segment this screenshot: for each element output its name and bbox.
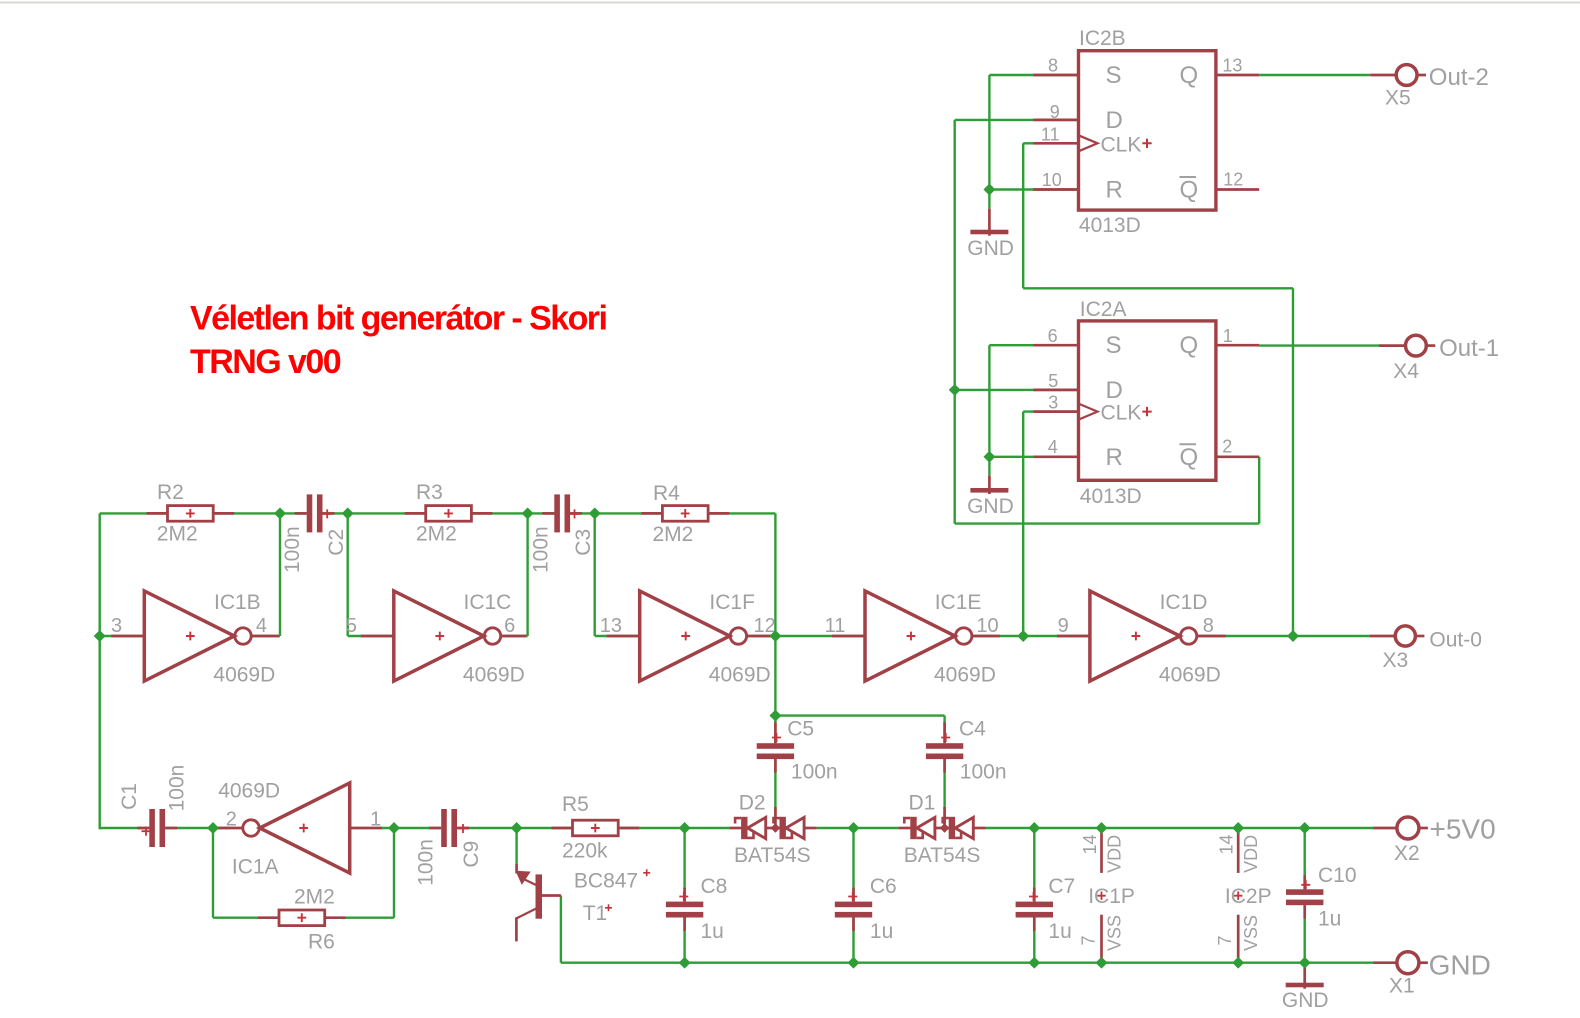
wire: IC1F output node to IC1E input (748, 635, 865, 637)
inverter IC1E (4069D) (825, 591, 1000, 687)
junction C2/R3 node (342, 507, 354, 519)
svg-text:3: 3 (111, 615, 122, 637)
wire: IC2A S/R tie vertical (988, 345, 990, 475)
svg-text:BAT54S: BAT54S (734, 844, 811, 867)
svg-text:X5: X5 (1385, 87, 1411, 110)
svg-text:IC2A: IC2A (1080, 298, 1127, 321)
capacitor C4 (926, 718, 1007, 784)
svg-text:4069D: 4069D (1159, 664, 1221, 687)
wire: IC2A D pin wire (955, 389, 1079, 391)
wire: IC2B Q to X5 (Out-2 net) (1259, 74, 1370, 76)
svg-text:X2: X2 (1394, 842, 1420, 865)
svg-text:C4: C4 (959, 718, 986, 741)
wire: +5V row left of C1 (100, 827, 150, 829)
svg-text:2: 2 (226, 809, 237, 831)
svg-text:GND: GND (1282, 989, 1329, 1012)
wire: top row R4 to corner above IC1F output (708, 512, 775, 514)
svg-text:3: 3 (1048, 393, 1058, 413)
wire: top row C2 to R3 (323, 512, 426, 514)
svg-text:TRNG v00: TRNG v00 (190, 343, 341, 381)
wire: IC2B CLK horizontal jog y=288 (1023, 287, 1293, 289)
svg-text:IC1C: IC1C (464, 591, 512, 614)
svg-text:R4: R4 (653, 482, 680, 505)
svg-text:100n: 100n (165, 765, 188, 812)
capacitor C8 (666, 875, 727, 943)
junction IC2B R/GND (983, 184, 995, 196)
svg-text:C5: C5 (787, 718, 814, 741)
svg-text:IC2B: IC2B (1079, 27, 1126, 50)
ground symbol GND (IC2B S/R) (967, 209, 1014, 260)
capacitor C9 (414, 809, 483, 886)
top window border line (0, 2, 1580, 4)
svg-text:6: 6 (504, 615, 515, 637)
svg-text:8: 8 (1048, 56, 1058, 76)
svg-text:IC1A: IC1A (232, 856, 279, 879)
svg-text:2: 2 (1222, 437, 1232, 457)
svg-text:2M2: 2M2 (416, 523, 457, 546)
junction IC1A output / R6 (207, 822, 219, 834)
ground symbol GND (IC2A S/R) (967, 476, 1014, 518)
svg-text:C10: C10 (1318, 864, 1357, 887)
wire: row C1 to IC1A output bubble (165, 827, 229, 829)
wire: IC2B CLK pin wire (1023, 142, 1078, 144)
junction C6 bottom (848, 957, 860, 969)
connector pad X2 / net +5V0 (1373, 814, 1496, 866)
wire: D-net vertical x=954.7 (IC2A Qbar to both D inputs) (954, 120, 956, 524)
junction C8 bottom (679, 957, 691, 969)
svg-text:11: 11 (825, 615, 846, 637)
svg-text:C8: C8 (701, 875, 728, 898)
svg-text:4: 4 (256, 615, 267, 637)
svg-text:GND: GND (967, 495, 1014, 518)
svg-text:100n: 100n (414, 839, 437, 886)
svg-text:S: S (1106, 62, 1122, 89)
resistor R6 (258, 886, 346, 954)
svg-text:VSS: VSS (1241, 915, 1261, 951)
junction IC1F output node (769, 630, 781, 642)
svg-text:R3: R3 (416, 481, 443, 504)
svg-text:D2: D2 (739, 792, 766, 815)
svg-text:R2: R2 (157, 481, 184, 504)
svg-text:IC1P: IC1P (1088, 885, 1135, 908)
wire: vertical from R3/C3 node down to IC1C output (526, 513, 528, 636)
svg-text:D: D (1106, 107, 1123, 134)
svg-text:T1: T1 (583, 902, 608, 925)
wire: IC2A CLK vertical x=1023 down to Out-0 node (1022, 412, 1024, 636)
wire: oscillator top row left of R2 (100, 512, 168, 514)
svg-text:D: D (1106, 377, 1123, 404)
svg-text:1u: 1u (1048, 920, 1071, 943)
resistor R4 (641, 482, 729, 546)
wire: top row C3 to R4 (570, 512, 663, 514)
wire: row R5 to D2 (621, 827, 730, 829)
wire: C7 bottom vertical (1033, 918, 1035, 963)
connector pad X4 / net Out-1 (1379, 335, 1499, 383)
svg-text:9: 9 (1050, 102, 1060, 122)
svg-text:R6: R6 (308, 931, 335, 954)
svg-text:Q: Q (1180, 177, 1199, 204)
svg-text:4069D: 4069D (463, 664, 525, 687)
svg-text:100n: 100n (960, 761, 1007, 784)
svg-text:4069D: 4069D (218, 780, 280, 803)
wire: row D1 to X2 (986, 827, 1373, 829)
svg-text:Out-1: Out-1 (1439, 335, 1499, 362)
wire: row D2 to D1 (817, 827, 899, 829)
wire: IC1E output to IC1D input (974, 635, 1090, 637)
svg-text:S: S (1106, 332, 1122, 359)
wire: C4 bottom to D1 center tap (943, 757, 945, 828)
svg-text:9: 9 (1058, 615, 1069, 637)
junction C10 bottom / GND (1299, 957, 1311, 969)
svg-text:CLK: CLK (1101, 402, 1142, 425)
capacitor C6 (835, 875, 897, 943)
junction T1 collector (511, 822, 523, 834)
svg-text:1u: 1u (870, 920, 893, 943)
wire: IC1F input (595, 635, 640, 637)
junction C7 bottom (1028, 957, 1040, 969)
wire: C6 top vertical (852, 828, 854, 902)
svg-text:R: R (1106, 444, 1123, 471)
wire: IC1D output to X3 pad (Out-0 net) (1199, 635, 1371, 637)
wire: C4 vertical above plates (943, 716, 945, 744)
svg-text:2M2: 2M2 (157, 523, 198, 546)
svg-text:4069D: 4069D (213, 664, 275, 687)
svg-text:10: 10 (1042, 170, 1062, 190)
inverter IC1F (4069D) (600, 591, 776, 687)
wire: IC2A CLK pin wire (1023, 410, 1078, 412)
svg-text:7: 7 (1215, 935, 1235, 945)
connector pad X1 / net GND (1373, 950, 1491, 998)
capacitor C2 (281, 494, 348, 573)
resistor R5 (552, 793, 640, 863)
svg-text:1u: 1u (701, 920, 724, 943)
wire: left feedback vertical x=99.7 (98, 513, 100, 829)
svg-text:X4: X4 (1393, 360, 1419, 383)
junction C3/R4 node (589, 507, 601, 519)
junction IC1A input / R6 (388, 822, 400, 834)
D flip-flop IC2B (4013D) (1033, 51, 1259, 210)
svg-text:IC1F: IC1F (709, 591, 755, 614)
svg-text:GND: GND (967, 237, 1014, 260)
wire: C10 bottom vertical (1303, 905, 1305, 963)
svg-text:GND: GND (1429, 950, 1491, 981)
svg-text:IC1D: IC1D (1160, 591, 1208, 614)
svg-text:8: 8 (1203, 615, 1214, 637)
svg-text:C2: C2 (325, 529, 348, 556)
svg-text:100n: 100n (281, 526, 304, 573)
svg-text:Q: Q (1180, 62, 1199, 89)
inverter IC1C (4069D) (346, 591, 527, 687)
svg-text:12: 12 (1223, 170, 1243, 190)
svg-text:Véletlen bit generátor - Skori: Véletlen bit generátor - Skori (190, 300, 606, 338)
svg-text:IC1B: IC1B (214, 591, 261, 614)
resistor R2 (147, 481, 235, 546)
wire: vertical from R2/C2 node down to IC1B output (279, 513, 281, 636)
wire: IC1C input (348, 635, 394, 637)
wire: IC2B CLK vertical x=1293 down to Out-0 node (1292, 288, 1294, 636)
svg-text:IC1E: IC1E (935, 591, 982, 614)
junction C5/C4 top link (769, 710, 781, 722)
svg-text:Out-0: Out-0 (1429, 629, 1482, 652)
wire: R6 feedback left vertical (212, 828, 214, 918)
svg-text:7: 7 (1079, 935, 1099, 945)
svg-text:D1: D1 (909, 792, 936, 815)
svg-text:4069D: 4069D (709, 664, 771, 687)
wire: vertical from C2/R3 node down to IC1C input (347, 513, 349, 636)
wire: C10 top vertical (1303, 828, 1305, 889)
junction IC2A R/GND (983, 451, 995, 463)
svg-text:5: 5 (1048, 371, 1058, 391)
transistor T1 (BC847) (516, 864, 650, 941)
wire: IC2B R pin wire (989, 188, 1078, 190)
wire: vertical from R4 row down to IC1F output, to C5 top node (774, 513, 776, 743)
wire: R6 row left segment (213, 917, 279, 919)
junction IC1B input / feedback (94, 630, 106, 642)
wire: IC2A S pin wire (989, 344, 1078, 346)
dual schottky diode D2 (BAT54S) (729, 792, 816, 868)
power pins IC2P (VDD/VSS of IC2) (1215, 828, 1271, 963)
wire: row C9 to R5 (458, 827, 572, 829)
junction C10 top (1299, 822, 1311, 834)
svg-text:C1: C1 (118, 783, 141, 810)
svg-text:C6: C6 (870, 875, 897, 898)
wire: IC2A R pin wire (989, 456, 1078, 458)
inverter IC1B (4069D) (111, 591, 279, 687)
svg-text:C7: C7 (1048, 875, 1075, 898)
junction IC1D output / CLK tap (1287, 630, 1299, 642)
junction C7 top (1028, 822, 1040, 834)
svg-text:14: 14 (1080, 834, 1100, 854)
wire: IC2B D pin wire (955, 119, 1079, 121)
svg-text:5: 5 (346, 615, 357, 637)
wire: C5/C4 top link y=715.6 (775, 714, 944, 716)
wire: IC2B CLK vertical x=1023 (1022, 143, 1024, 288)
svg-text:Out-2: Out-2 (1429, 64, 1489, 91)
svg-text:4013D: 4013D (1080, 485, 1142, 508)
svg-text:1u: 1u (1318, 908, 1341, 931)
dual schottky diode D1 (BAT54S) (899, 792, 986, 868)
connector pad X3 / net Out-0 (1370, 626, 1482, 672)
D flip-flop IC2A (4013D) (1033, 321, 1259, 480)
junction IC1P VSS (1096, 957, 1108, 969)
svg-text:14: 14 (1217, 834, 1237, 854)
svg-text:+5V0: +5V0 (1430, 814, 1496, 845)
wire: top row R2 to C2 (213, 512, 307, 514)
svg-text:CLK: CLK (1101, 133, 1142, 156)
power pins IC1P (VDD/VSS of IC1) (1079, 828, 1135, 963)
capacitor C1 (118, 765, 188, 847)
svg-text:1: 1 (1223, 326, 1233, 346)
svg-text:Q: Q (1180, 444, 1199, 471)
inverter IC1D (4069D) (1057, 591, 1226, 687)
junction C6 top (848, 822, 860, 834)
ground symbol GND (supply) (1282, 963, 1329, 1012)
svg-text:VSS: VSS (1105, 915, 1125, 951)
svg-text:2M2: 2M2 (294, 886, 335, 909)
capacitor C10 (1286, 864, 1357, 931)
wire: row IC1A input to C9 (380, 827, 440, 829)
svg-text:R: R (1106, 177, 1123, 204)
wire: vertical from C3/R4 node down to IC1F input (594, 513, 596, 636)
connector pad X5 / net Out-2 (1370, 64, 1489, 110)
wire: C7 top vertical (1033, 828, 1035, 902)
wire: C5 bottom to D2 center tap (774, 757, 776, 828)
inverter IC1A (4069D, mirrored) (215, 780, 383, 879)
svg-text:R5: R5 (562, 793, 589, 816)
junction IC1E output / CLK tap (1017, 630, 1029, 642)
wire: IC2A Qbar corner vertical x=1259 (1258, 457, 1260, 524)
junction IC1P VDD (1096, 822, 1108, 834)
junction IC2P VSS (1232, 957, 1244, 969)
svg-text:VDD: VDD (1241, 835, 1261, 873)
wire: IC1B input from left vertical (100, 635, 145, 637)
svg-text:6: 6 (1048, 326, 1058, 346)
svg-text:C3: C3 (572, 529, 595, 556)
svg-text:IC2P: IC2P (1225, 885, 1272, 908)
junction R3/C3 node (522, 507, 534, 519)
wire: IC2A Qbar feedback bottom run y=523.6 (955, 522, 1259, 524)
svg-text:11: 11 (1041, 125, 1060, 145)
wire: GND row y=962.7 (561, 962, 1373, 964)
svg-text:BAT54S: BAT54S (904, 844, 981, 867)
svg-text:13: 13 (600, 615, 622, 637)
svg-text:1: 1 (370, 809, 381, 831)
svg-text:4: 4 (1048, 437, 1058, 457)
svg-text:VDD: VDD (1105, 835, 1125, 873)
wire: IC2A Q to X4 (Out-1 net) (1259, 344, 1379, 346)
wire: C6 bottom vertical (852, 918, 854, 963)
svg-text:220k: 220k (562, 840, 608, 863)
svg-text:2M2: 2M2 (653, 523, 694, 546)
svg-text:4013D: 4013D (1079, 214, 1141, 237)
svg-text:13: 13 (1222, 56, 1242, 76)
wire: T1 base down to GND row (560, 896, 562, 963)
capacitor C7 (1016, 875, 1076, 943)
junction C8 top (679, 822, 691, 834)
svg-text:X3: X3 (1383, 649, 1409, 672)
wire: IC2B S/R tie vertical (988, 75, 990, 209)
junction IC2P VDD (1232, 822, 1244, 834)
wire: C8 top vertical (683, 828, 685, 902)
svg-text:100n: 100n (529, 526, 552, 573)
capacitor C3 (529, 494, 595, 573)
wire: IC1B output to corner (253, 635, 280, 637)
wire: C8 bottom vertical (683, 918, 685, 963)
svg-text:X1: X1 (1389, 975, 1415, 998)
svg-text:4069D: 4069D (934, 664, 996, 687)
resistor R3 (405, 481, 493, 546)
wire: R6 row right segment (326, 917, 394, 919)
svg-text:10: 10 (976, 615, 998, 637)
junction R2/C2 node (274, 507, 286, 519)
wire: R6 feedback right vertical (393, 828, 395, 918)
wire: IC1C output corner (502, 635, 528, 637)
svg-text:BC847: BC847 (574, 870, 638, 893)
svg-text:100n: 100n (791, 761, 838, 784)
svg-text:Q: Q (1180, 332, 1199, 359)
wire: top row R3 to C3 (471, 512, 555, 514)
capacitor C5 (757, 718, 838, 784)
wire: IC2B S pin wire (989, 74, 1078, 76)
junction IC2A D pin (949, 384, 961, 396)
svg-text:C9: C9 (460, 841, 483, 868)
wire: T1 collector drop (515, 828, 517, 864)
